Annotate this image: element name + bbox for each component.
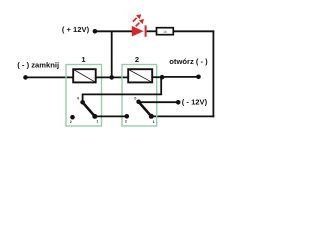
relay coil K1 bbox=[73, 69, 96, 82]
LED emission arrow 2 bbox=[136, 19, 144, 26]
LED D1 cathode bar bbox=[145, 25, 147, 36]
wire resistor to right rail bbox=[173, 30, 214, 32]
LED D1 triangle bbox=[132, 26, 144, 37]
wire bottom rail bbox=[151, 115, 214, 117]
switch 2 arm bbox=[139, 102, 152, 117]
relay coil K2 bbox=[128, 69, 152, 82]
wire zamknij to coil K1 bbox=[26, 76, 74, 78]
terminal +12V bbox=[93, 29, 98, 34]
wire +12V to LED bbox=[95, 30, 132, 32]
svg-text:2: 2 bbox=[70, 120, 72, 124]
svg-text:0: 0 bbox=[134, 97, 136, 101]
switch 2 pin 0 bbox=[136, 100, 141, 105]
switch 2 arm contact pin 1 bbox=[149, 114, 154, 119]
wire node B down bbox=[160, 77, 162, 94]
svg-text:1: 1 bbox=[153, 120, 155, 124]
terminal zamknij bbox=[23, 75, 28, 80]
resistor R1 bbox=[157, 28, 174, 35]
wire LED to resistor bbox=[147, 30, 157, 32]
switch 1 NC contact pin 2 bbox=[70, 115, 75, 120]
svg-text:1k: 1k bbox=[163, 30, 167, 34]
wire stub switch 1 common bbox=[82, 94, 84, 102]
switch 1 arm contact pin 1 bbox=[92, 114, 97, 119]
switch 2 NC contact pin 2 bbox=[125, 114, 130, 119]
wire +12V branch down bbox=[111, 31, 113, 77]
switch 1 pin 0 bbox=[80, 100, 85, 105]
svg-text:( - ) zamknij: ( - ) zamknij bbox=[17, 60, 59, 69]
svg-text:( - 12V): ( - 12V) bbox=[182, 98, 208, 107]
wire switch 2 common to -12V terminal bbox=[139, 101, 179, 103]
wire coil K1 to junction bbox=[96, 76, 129, 78]
svg-text:0: 0 bbox=[77, 96, 79, 100]
LED emission arrow 1 bbox=[133, 14, 141, 21]
wire to switch 1 common bbox=[82, 93, 162, 95]
svg-text:1: 1 bbox=[96, 120, 98, 124]
relay 1 enclosure bbox=[66, 65, 102, 127]
svg-text:2: 2 bbox=[135, 55, 139, 64]
svg-text:2: 2 bbox=[125, 120, 127, 124]
junction node B bbox=[160, 75, 165, 80]
wire node B to otworz terminal bbox=[162, 76, 199, 78]
wire right rail vertical bbox=[212, 30, 214, 117]
terminal otworz bbox=[196, 75, 201, 80]
junction +12V/coils bbox=[109, 75, 114, 80]
switch 1 arm bbox=[83, 102, 95, 116]
svg-text:( + 12V): ( + 12V) bbox=[62, 25, 90, 34]
svg-text:otwórz ( - ): otwórz ( - ) bbox=[169, 57, 208, 66]
relay 2 enclosure bbox=[122, 65, 157, 127]
wire coil K2 to junction node B bbox=[152, 76, 162, 78]
wire switch1 pin1 to switch2 pin2 bbox=[95, 115, 127, 117]
terminal -12V bbox=[176, 100, 181, 105]
